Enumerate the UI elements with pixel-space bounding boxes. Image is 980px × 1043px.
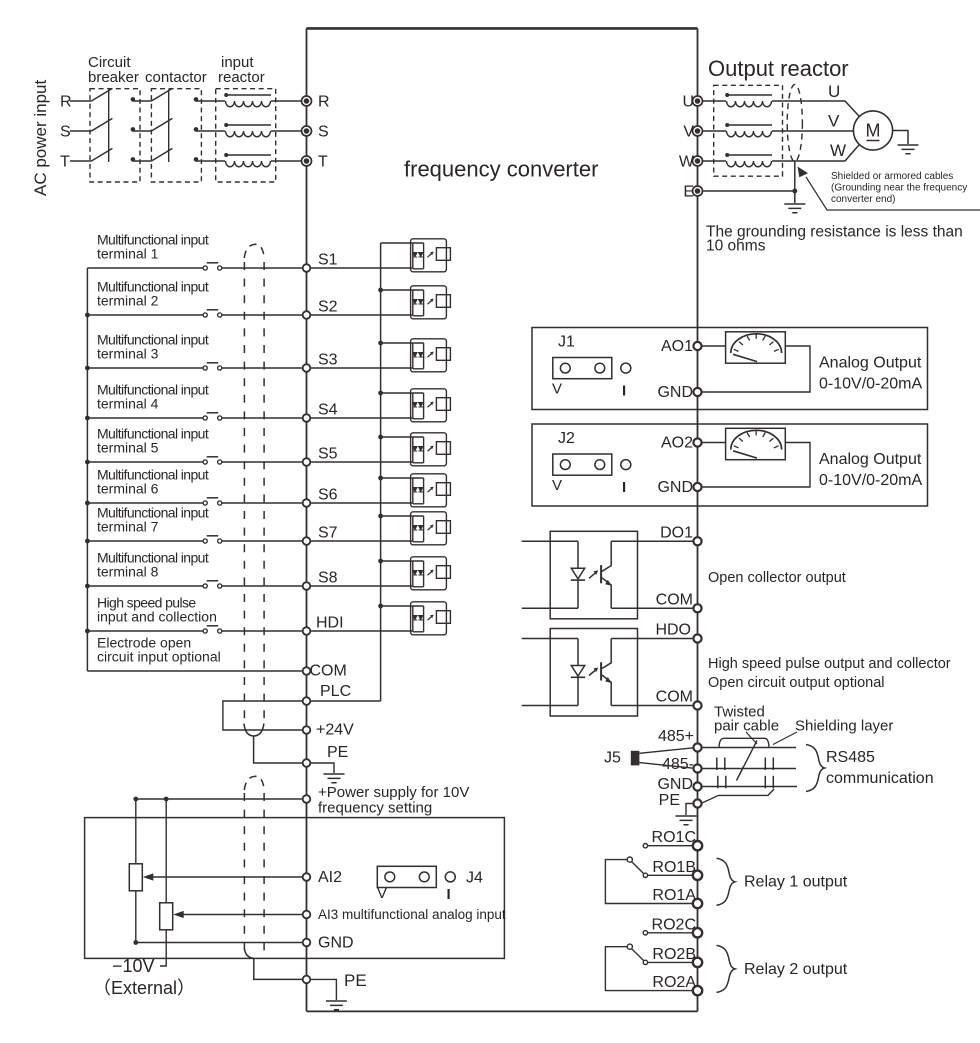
shield drain wire [794, 162, 796, 204]
terminal S [302, 126, 312, 136]
terminal GND J2 [693, 483, 701, 491]
switch S3 [203, 363, 222, 370]
svg-text:J1: J1 [558, 334, 575, 351]
terminal W [693, 156, 703, 166]
svg-text:Output reactor: Output reactor [708, 56, 849, 81]
contactor pole S [151, 118, 198, 131]
svg-text:High speed pulse output and co: High speed pulse output and collector [708, 656, 951, 672]
svg-text:frequency converter: frequency converter [404, 157, 598, 182]
analog output box J1 [532, 328, 928, 410]
svg-text:I: I [622, 383, 626, 400]
analog io box [85, 818, 505, 959]
wire terminal S8 to optocoupler [310, 585, 413, 587]
wire opto anode S8 [381, 560, 413, 562]
wire contactor to reactor [196, 160, 225, 162]
svg-text:V: V [683, 124, 694, 141]
wire AI3 to pot2 [182, 914, 303, 916]
terminal AI2 [303, 873, 311, 881]
svg-text:AC power input: AC power input [31, 79, 50, 196]
wire AO2 to meter [702, 442, 726, 444]
wire PLC to opto bus [310, 700, 380, 702]
svg-text:Analog Output: Analog Output [819, 451, 922, 468]
wire reactor to terminal T [271, 160, 302, 162]
wire terminal S6 to optocoupler [310, 502, 413, 504]
circuit breaker pole S [91, 118, 135, 131]
wire switch to terminal S4 [222, 417, 303, 419]
output reactor box [714, 85, 783, 176]
optocoupler S1 [411, 239, 451, 272]
switch S4 [203, 413, 222, 420]
output reactor coil V [725, 123, 772, 137]
svg-text:R: R [60, 94, 72, 111]
terminal DO1 [693, 537, 701, 545]
svg-text:DO1: DO1 [660, 525, 693, 542]
wire bus to switch S6 [87, 502, 203, 504]
wire contactor to reactor [196, 130, 225, 132]
frequency converter enclosure frame [307, 28, 698, 1011]
wire bus to switch S8 [87, 585, 203, 587]
wire breaker to contactor [133, 160, 152, 162]
wire E to shield [703, 190, 795, 192]
wire opto anode S2 [381, 289, 413, 291]
wire V to motor [772, 130, 853, 132]
terminal HDO [693, 634, 701, 642]
contactor linkage bar [168, 90, 170, 163]
contactor pole R [151, 88, 198, 101]
wire opto anode S5 [381, 436, 413, 438]
wire breaker to contactor [133, 100, 152, 102]
wire opto anode S6 [381, 477, 413, 479]
svg-text:S4: S4 [318, 402, 338, 419]
svg-text:PE: PE [344, 971, 367, 990]
terminal S7 [303, 537, 311, 545]
shield ground [784, 204, 805, 213]
terminal 485- [693, 764, 701, 772]
wire terminal S4 to optocoupler [310, 417, 413, 419]
wire reactor to terminal S [271, 130, 302, 132]
svg-text:+24V: +24V [316, 722, 354, 739]
wire W to motor [772, 144, 860, 161]
optocoupler S3 [411, 339, 451, 372]
circuit breaker pole T [91, 148, 135, 161]
wire T to breaker [70, 160, 91, 162]
relay 2 contacts [605, 931, 694, 991]
opto return bus to PLC [380, 243, 382, 701]
wire switch to terminal S5 [222, 461, 303, 463]
terminal U [693, 96, 703, 106]
svg-text:terminal 7: terminal 7 [97, 519, 159, 535]
switch S1 [203, 263, 222, 270]
svg-text:COM: COM [310, 663, 347, 680]
wire +10V rail [136, 798, 303, 800]
terminal S6 [303, 499, 311, 507]
svg-text:485-: 485- [662, 756, 694, 773]
node opto bus junction [378, 391, 383, 396]
wire switch to terminal S3 [222, 367, 303, 369]
node opto bus junction [378, 559, 383, 564]
terminal +24V [303, 726, 311, 734]
svg-text:Shielding layer: Shielding layer [795, 718, 893, 735]
svg-text:S5: S5 [318, 446, 338, 463]
svg-text:RO1B: RO1B [652, 859, 696, 876]
wire opto anode S1 [381, 242, 413, 244]
svg-text:PE: PE [327, 744, 348, 761]
svg-text:T: T [60, 154, 70, 171]
svg-text:（External）: （External） [93, 978, 195, 998]
PE 485 ground stub [686, 804, 694, 816]
svg-text:E: E [683, 184, 694, 201]
wire opto anode S3 [381, 342, 413, 344]
wire switch to terminal S8 [222, 585, 303, 587]
wire V to output reactor [703, 130, 727, 132]
wire terminal HDI to optocoupler [310, 630, 413, 632]
node shield junction [792, 189, 797, 194]
wire switch to terminal S7 [222, 540, 303, 542]
optocoupler S2 [411, 286, 451, 319]
wire breaker to contactor [133, 130, 152, 132]
wire U to output reactor [703, 100, 727, 102]
terminal T [302, 156, 312, 166]
svg-text:S: S [60, 124, 71, 141]
terminal PE bottom [303, 976, 311, 984]
wire bus to switch S3 [87, 367, 203, 369]
wire switch to terminal S1 [222, 267, 303, 269]
optocoupler S6 [411, 474, 451, 507]
analog output box J2 [532, 424, 928, 506]
svg-text:GND: GND [657, 479, 693, 496]
twisted pair crossover [737, 741, 758, 781]
wire terminal S2 to optocoupler [310, 314, 413, 316]
relay 2 brace [717, 945, 736, 992]
PE 485 ground [676, 816, 697, 825]
svg-text:HDI: HDI [316, 615, 344, 632]
wire terminal S3 to optocoupler [310, 367, 413, 369]
terminal COM1 [693, 604, 701, 612]
terminal RO2B [693, 958, 702, 967]
svg-text:PLC: PLC [320, 683, 351, 700]
shield to PE wire [703, 789, 775, 803]
svg-text:HDO: HDO [655, 622, 691, 639]
svg-text:terminal 8: terminal 8 [97, 564, 159, 580]
svg-text:T: T [318, 154, 328, 171]
wire J5 to 485+ [639, 748, 693, 754]
wire terminal S7 to optocoupler [310, 540, 413, 542]
svg-text:COM: COM [656, 689, 693, 706]
wire bus to switch HDI [87, 630, 203, 632]
svg-text:terminal 4: terminal 4 [97, 396, 159, 412]
breaker linkage bar [108, 90, 110, 163]
svg-text:terminal 6: terminal 6 [97, 481, 159, 497]
svg-text:GND: GND [657, 384, 693, 401]
terminal RO1B [693, 871, 702, 880]
node bus junction S4 [85, 416, 90, 421]
svg-text:communication: communication [826, 770, 934, 787]
svg-text:S6: S6 [318, 487, 338, 504]
svg-text:converter end): converter end) [831, 194, 895, 205]
node opto bus junction [378, 341, 383, 346]
wire terminal S5 to optocoupler [310, 461, 413, 463]
wire U to motor [772, 101, 860, 117]
contactor box [151, 89, 201, 182]
svg-text:frequency setting: frequency setting [318, 800, 432, 817]
svg-text:breaker: breaker [88, 69, 139, 86]
circuit breaker pole R [91, 88, 135, 101]
digital input common bus [86, 268, 88, 671]
terminal S4 [303, 414, 311, 422]
terminal GND analog [303, 939, 311, 947]
terminal S5 [303, 458, 311, 466]
wire switch to terminal S2 [222, 314, 303, 316]
circuit breaker box [90, 89, 140, 182]
svg-text:PE: PE [659, 792, 680, 809]
svg-text:W: W [830, 141, 846, 160]
terminal +10V supply [303, 795, 311, 803]
wire contactor to reactor [196, 100, 225, 102]
wire bus to switch S7 [87, 540, 203, 542]
svg-text:GND: GND [657, 776, 693, 793]
svg-text:+Power supply for 10V: +Power supply for 10V [318, 784, 469, 801]
potentiometer 1 [135, 799, 137, 864]
svg-text:Open circuit output optional: Open circuit output optional [708, 675, 885, 691]
RS485 brace [806, 745, 825, 792]
svg-text:U: U [828, 82, 840, 101]
svg-text:J2: J2 [558, 430, 575, 447]
terminal PLC [303, 697, 311, 705]
svg-text:I: I [622, 479, 626, 496]
terminal RO2A [693, 986, 702, 995]
svg-text:terminal 2: terminal 2 [97, 293, 159, 309]
optocoupler S4 [411, 389, 451, 422]
wire 485- line [702, 768, 796, 770]
wire bus to switch S2 [87, 314, 203, 316]
node bus junction S2 [85, 313, 90, 318]
motor ground [898, 145, 919, 154]
node bus junction S3 [85, 366, 90, 371]
wire switch to terminal S6 [222, 502, 303, 504]
svg-text:J4: J4 [466, 870, 483, 887]
terminal E [693, 186, 703, 196]
terminal HDI [303, 627, 311, 635]
svg-text:V: V [552, 477, 562, 494]
svg-text:V: V [828, 112, 840, 131]
svg-text:terminal 1: terminal 1 [97, 246, 159, 262]
input reactor box [216, 89, 276, 182]
wire W to output reactor [703, 160, 727, 162]
potentiometer 2 [165, 799, 167, 903]
input reactor coil T [224, 153, 271, 167]
svg-text:(Grounding near the frequency: (Grounding near the frequency [831, 183, 967, 194]
svg-text:S: S [318, 124, 329, 141]
svg-text:Open collector output: Open collector output [708, 570, 846, 586]
svg-text:0-10V/0-20mA: 0-10V/0-20mA [819, 472, 922, 489]
terminal R [302, 96, 312, 106]
jumper J1 [553, 358, 631, 379]
terminal AI3 [303, 911, 311, 919]
svg-text:10 ohms: 10 ohms [706, 238, 766, 255]
terminal COM [303, 667, 311, 675]
svg-text:reactor: reactor [218, 69, 265, 86]
motor M [853, 111, 892, 150]
switch HDI [203, 626, 222, 633]
wire terminal S1 to optocoupler [310, 267, 413, 269]
svg-text:Shielded or armored cables: Shielded or armored cables [831, 171, 953, 182]
svg-text:RO1A: RO1A [652, 887, 696, 904]
svg-text:V: V [552, 381, 562, 398]
terminal V [693, 126, 703, 136]
svg-text:485+: 485+ [658, 728, 694, 745]
switch S2 [203, 310, 222, 317]
shielded cable digital pair [244, 244, 303, 763]
wire GND to pot1 [136, 942, 303, 944]
svg-text:S7: S7 [318, 525, 338, 542]
wire meter to GND [702, 443, 810, 488]
wire AI2 to pot1 [152, 876, 303, 878]
meter J2 [726, 428, 786, 459]
terminal PE 485 [693, 799, 701, 807]
svg-text:S3: S3 [318, 352, 338, 369]
svg-text:Relay 2 output: Relay 2 output [744, 961, 848, 978]
svg-text:Analog Output: Analog Output [819, 355, 922, 372]
terminal S8 [303, 582, 311, 590]
switch S8 [203, 581, 222, 588]
optocoupler S7 [411, 512, 451, 545]
wire bus to switch S4 [87, 417, 203, 419]
jumper J4 [377, 866, 455, 887]
wire S to breaker [70, 130, 91, 132]
svg-text:J5: J5 [604, 750, 621, 767]
svg-text:AI2: AI2 [318, 869, 342, 886]
terminal AO2 [693, 438, 701, 446]
node opto bus junction [378, 604, 383, 609]
svg-text:terminal 3: terminal 3 [97, 346, 159, 362]
svg-text:RO2C: RO2C [652, 916, 696, 933]
cable section marks [717, 758, 774, 789]
svg-text:COM: COM [656, 592, 693, 609]
terminal GND 485 [693, 782, 701, 790]
PE ground stub [310, 763, 334, 773]
svg-text:I: I [447, 886, 451, 903]
output reactor coil W [725, 153, 772, 167]
svg-text:RO1C: RO1C [652, 829, 696, 846]
svg-text:R: R [318, 94, 330, 111]
node pot1 bottom [133, 940, 138, 945]
terminal RO2C [693, 928, 702, 937]
terminal 485+ [693, 743, 701, 751]
wire R to breaker [70, 100, 91, 102]
switch S7 [203, 536, 222, 543]
svg-text:S8: S8 [318, 570, 338, 587]
callout arrow to shield [806, 177, 980, 210]
svg-text:Relay 1 output: Relay 1 output [744, 874, 848, 891]
svg-text:AO1: AO1 [661, 338, 693, 355]
terminal RO1C [693, 841, 702, 850]
shielded cable analog pair [244, 776, 302, 979]
switch S6 [203, 498, 222, 505]
contactor pole T [151, 148, 198, 161]
node bus junction HDI [85, 629, 90, 634]
PE bottom ground wire [310, 979, 336, 1000]
motor ground wire [893, 131, 908, 145]
svg-text:W: W [679, 154, 695, 171]
terminal GND J1 [693, 388, 701, 396]
svg-text:AO2: AO2 [661, 435, 693, 452]
shielded cable ellipse [787, 85, 802, 162]
svg-text:S1: S1 [318, 252, 338, 269]
wire J5 to 485- [639, 763, 693, 769]
terminal RO1A [693, 899, 702, 908]
svg-text:RO2B: RO2B [652, 946, 696, 963]
twisted pair shield loop [719, 738, 769, 747]
input reactor coil S [224, 123, 271, 137]
jumper J5 [631, 751, 640, 766]
optocoupler DO1 [522, 531, 694, 619]
wire opto anode HDI [381, 605, 413, 607]
wire bus to switch S5 [87, 461, 203, 463]
svg-text:input and collection: input and collection [97, 609, 217, 625]
PE bottom ground [326, 1001, 347, 1010]
svg-text:RS485: RS485 [826, 749, 875, 766]
svg-text:terminal 5: terminal 5 [97, 440, 159, 456]
terminal COM2 [693, 701, 701, 709]
jumper J2 [553, 454, 631, 475]
optocoupler HDI [411, 602, 451, 635]
svg-text:GND: GND [318, 935, 354, 952]
wire 485+ line [702, 747, 796, 749]
wire opto anode S7 [381, 515, 413, 517]
node bus junction S7 [85, 539, 90, 544]
wire bus to COM [87, 670, 302, 672]
terminal AO1 [693, 342, 701, 350]
node opto bus junction [378, 514, 383, 519]
terminal S2 [303, 311, 311, 319]
terminal S1 [303, 264, 311, 272]
svg-text:V: V [377, 885, 387, 902]
optocoupler S8 [411, 557, 451, 590]
node bus junction S5 [85, 460, 90, 465]
pointer pair cable [746, 732, 757, 744]
svg-text:0-10V/0-20mA: 0-10V/0-20mA [819, 376, 922, 393]
terminal PE1 [303, 759, 311, 767]
node opto bus junction [378, 476, 383, 481]
wire reactor to terminal R [271, 100, 302, 102]
svg-text:circuit input optional: circuit input optional [97, 649, 221, 665]
node pot2 top [164, 797, 169, 802]
PE ground [324, 774, 345, 783]
switch S5 [203, 457, 222, 464]
optocoupler HDO [522, 629, 694, 717]
node opto bus junction [378, 435, 383, 440]
svg-text:S2: S2 [318, 299, 338, 316]
svg-text:−10V: −10V [112, 956, 155, 976]
svg-text:AI3 multifunctional analog inp: AI3 multifunctional analog input [318, 907, 506, 922]
meter J1 [726, 332, 786, 363]
svg-text:U: U [682, 94, 694, 111]
node bus junction S8 [85, 584, 90, 589]
svg-text:RO2A: RO2A [652, 974, 696, 991]
svg-text:M: M [866, 121, 881, 141]
node opto bus junction [378, 288, 383, 293]
node pot1 top [133, 797, 138, 802]
jumper PLC to +24V [223, 701, 303, 730]
input reactor coil R [224, 93, 271, 107]
optocoupler S5 [411, 433, 451, 466]
svg-text:contactor: contactor [145, 69, 207, 86]
relay 1 brace [717, 858, 736, 905]
pointer shielding layer [773, 732, 797, 745]
wire switch to terminal HDI [222, 630, 303, 632]
terminal S3 [303, 364, 311, 372]
wire bus to switch S1 [87, 267, 203, 269]
